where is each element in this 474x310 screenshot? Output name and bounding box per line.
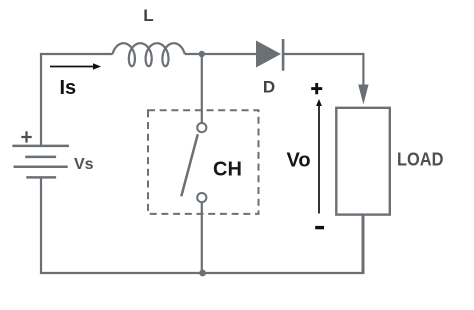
- svg-text:LOAD: LOAD: [397, 149, 444, 169]
- svg-text:D: D: [263, 78, 275, 97]
- svg-text:Vo: Vo: [287, 149, 311, 171]
- svg-text:L: L: [143, 6, 153, 25]
- svg-text:Vs: Vs: [74, 156, 94, 173]
- svg-text:CH: CH: [213, 158, 242, 180]
- svg-text:Is: Is: [60, 77, 77, 99]
